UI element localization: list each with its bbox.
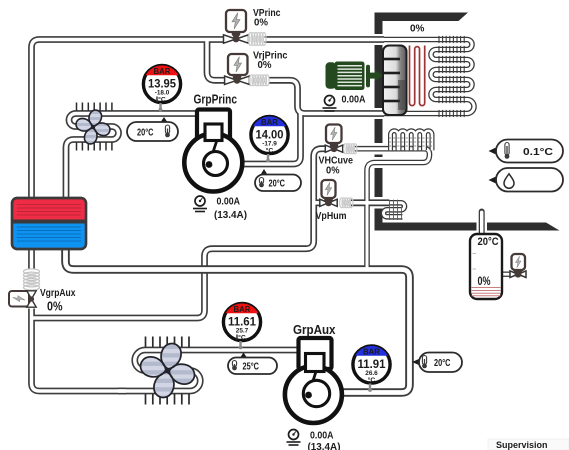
valve VHCuve — [325, 125, 357, 154]
fins top fan coil — [77, 103, 112, 151]
gauge BP 11.91 bar — [353, 346, 390, 392]
svg-text:°C: °C — [266, 147, 274, 155]
pill 20C right — [412, 353, 462, 373]
wall pipe gaps — [372, 34, 488, 232]
svg-text:Supervision: Supervision — [496, 440, 548, 450]
pill humidity chamber — [489, 168, 564, 192]
svg-text:BAR: BAR — [154, 67, 171, 76]
spring above VgrpAux — [24, 269, 40, 290]
svg-text:BAR: BAR — [261, 118, 278, 127]
gauge HP 11.61 bar — [223, 303, 260, 349]
compressor GrpAux — [285, 338, 342, 423]
svg-text:0%: 0% — [47, 299, 63, 314]
fins bottom fan coil — [146, 337, 190, 405]
svg-text:25.7: 25.7 — [236, 328, 249, 335]
junction rewhite return into suction line — [366, 171, 369, 268]
wire branch to VrjPrinc — [207, 40, 225, 81]
svg-text:20°C: 20°C — [269, 178, 286, 190]
svg-text:BAR: BAR — [363, 347, 380, 356]
svg-text:GrpAux: GrpAux — [293, 323, 336, 337]
valve VPrinc — [224, 10, 267, 46]
svg-text:GrpPrinc: GrpPrinc — [194, 93, 238, 107]
fins humidifier serpentine — [390, 200, 402, 220]
svg-text:26.6: 26.6 — [365, 370, 378, 377]
svg-text:13.95: 13.95 — [148, 77, 176, 91]
motor — [326, 62, 384, 91]
meter motor — [323, 95, 366, 112]
svg-text:-18.0: -18.0 — [155, 90, 170, 97]
coil evaporator serpentine — [384, 40, 474, 114]
svg-text:0.00A: 0.00A — [342, 95, 366, 106]
svg-text:°C: °C — [238, 334, 246, 342]
wire tank to spring VgrpAux — [31, 245, 33, 269]
pill 20C top coil — [127, 117, 178, 141]
chamber fan — [383, 46, 407, 116]
svg-text:BAR: BAR — [234, 305, 251, 314]
pill 0.1C chamber — [489, 140, 564, 163]
svg-text:0%: 0% — [258, 59, 273, 71]
svg-text:0%: 0% — [254, 17, 269, 29]
watermark — [488, 439, 569, 450]
coil humidifier serpentine — [384, 203, 405, 217]
svg-text:11.91: 11.91 — [358, 357, 386, 371]
svg-text:0.00A: 0.00A — [217, 197, 241, 208]
fan top coil — [63, 97, 123, 157]
wire VrjPrinc to evaporator bottom — [269, 80, 384, 113]
white pipe interiors — [32, 40, 475, 392]
wire vessel to fill valve — [500, 272, 512, 277]
fins evaporator — [439, 36, 464, 117]
svg-text:-17.9: -17.9 — [262, 141, 277, 148]
valve VrjPrinc — [225, 54, 270, 86]
wire VgrpAux down to bottom coil — [32, 309, 127, 392]
wall bottom — [375, 223, 560, 231]
svg-text:0%: 0% — [326, 165, 340, 177]
valve VgrpAux — [9, 291, 36, 307]
svg-text:°C: °C — [368, 376, 376, 384]
wire VpHum stub — [314, 202, 320, 204]
svg-text:VpHum: VpHum — [316, 210, 347, 222]
pill 20C mid — [255, 169, 301, 191]
svg-text:20°C: 20°C — [478, 236, 499, 248]
svg-text:0.1°C: 0.1°C — [523, 146, 553, 158]
coil top fan circuit — [66, 114, 197, 200]
wall top — [375, 13, 469, 22]
gauge BP 14.00 bar — [251, 116, 288, 162]
wall left vertical — [375, 13, 383, 231]
spring coil cuve exchanger — [389, 131, 432, 151]
tank hot/cold — [12, 198, 86, 249]
svg-text:20°C: 20°C — [137, 126, 154, 138]
svg-text:20°C: 20°C — [434, 357, 451, 369]
wire evaporator feed — [265, 39, 385, 41]
svg-text:0%: 0% — [410, 24, 425, 35]
coil bottom fan circuit — [118, 350, 298, 391]
svg-text:(13.4A): (13.4A) — [308, 442, 341, 450]
svg-text:0%: 0% — [478, 276, 491, 288]
wire VpHum outlet — [351, 202, 389, 204]
meter GrpAux — [287, 430, 341, 450]
meter GrpPrinc — [193, 196, 247, 221]
svg-text:14.00: 14.00 — [256, 128, 284, 142]
svg-text:°C: °C — [158, 96, 166, 104]
wire GrpAux suction (tank bottom line) — [66, 245, 410, 393]
gauge HP 13.95 bar — [143, 65, 180, 111]
pill 25C bottom — [228, 353, 277, 375]
svg-text:VgrpAux: VgrpAux — [40, 287, 76, 299]
wire cuve exchanger return — [355, 149, 430, 268]
heater element red — [410, 46, 425, 106]
valve humidifier fill — [510, 254, 526, 278]
svg-text:0.00A: 0.00A — [310, 431, 334, 442]
wire VHCuve feed line — [33, 149, 326, 318]
svg-text:(13.4A): (13.4A) — [214, 210, 247, 221]
svg-text:25°C: 25°C — [243, 361, 260, 373]
wire GrpPrinc suction branch — [244, 114, 301, 165]
compressor GrpPrinc — [184, 110, 242, 192]
svg-text:11.61: 11.61 — [228, 315, 256, 329]
wire feed-top from tank to VPrinc — [32, 40, 225, 200]
valve VpHum — [320, 180, 353, 208]
vessel humidifier — [470, 212, 502, 300]
